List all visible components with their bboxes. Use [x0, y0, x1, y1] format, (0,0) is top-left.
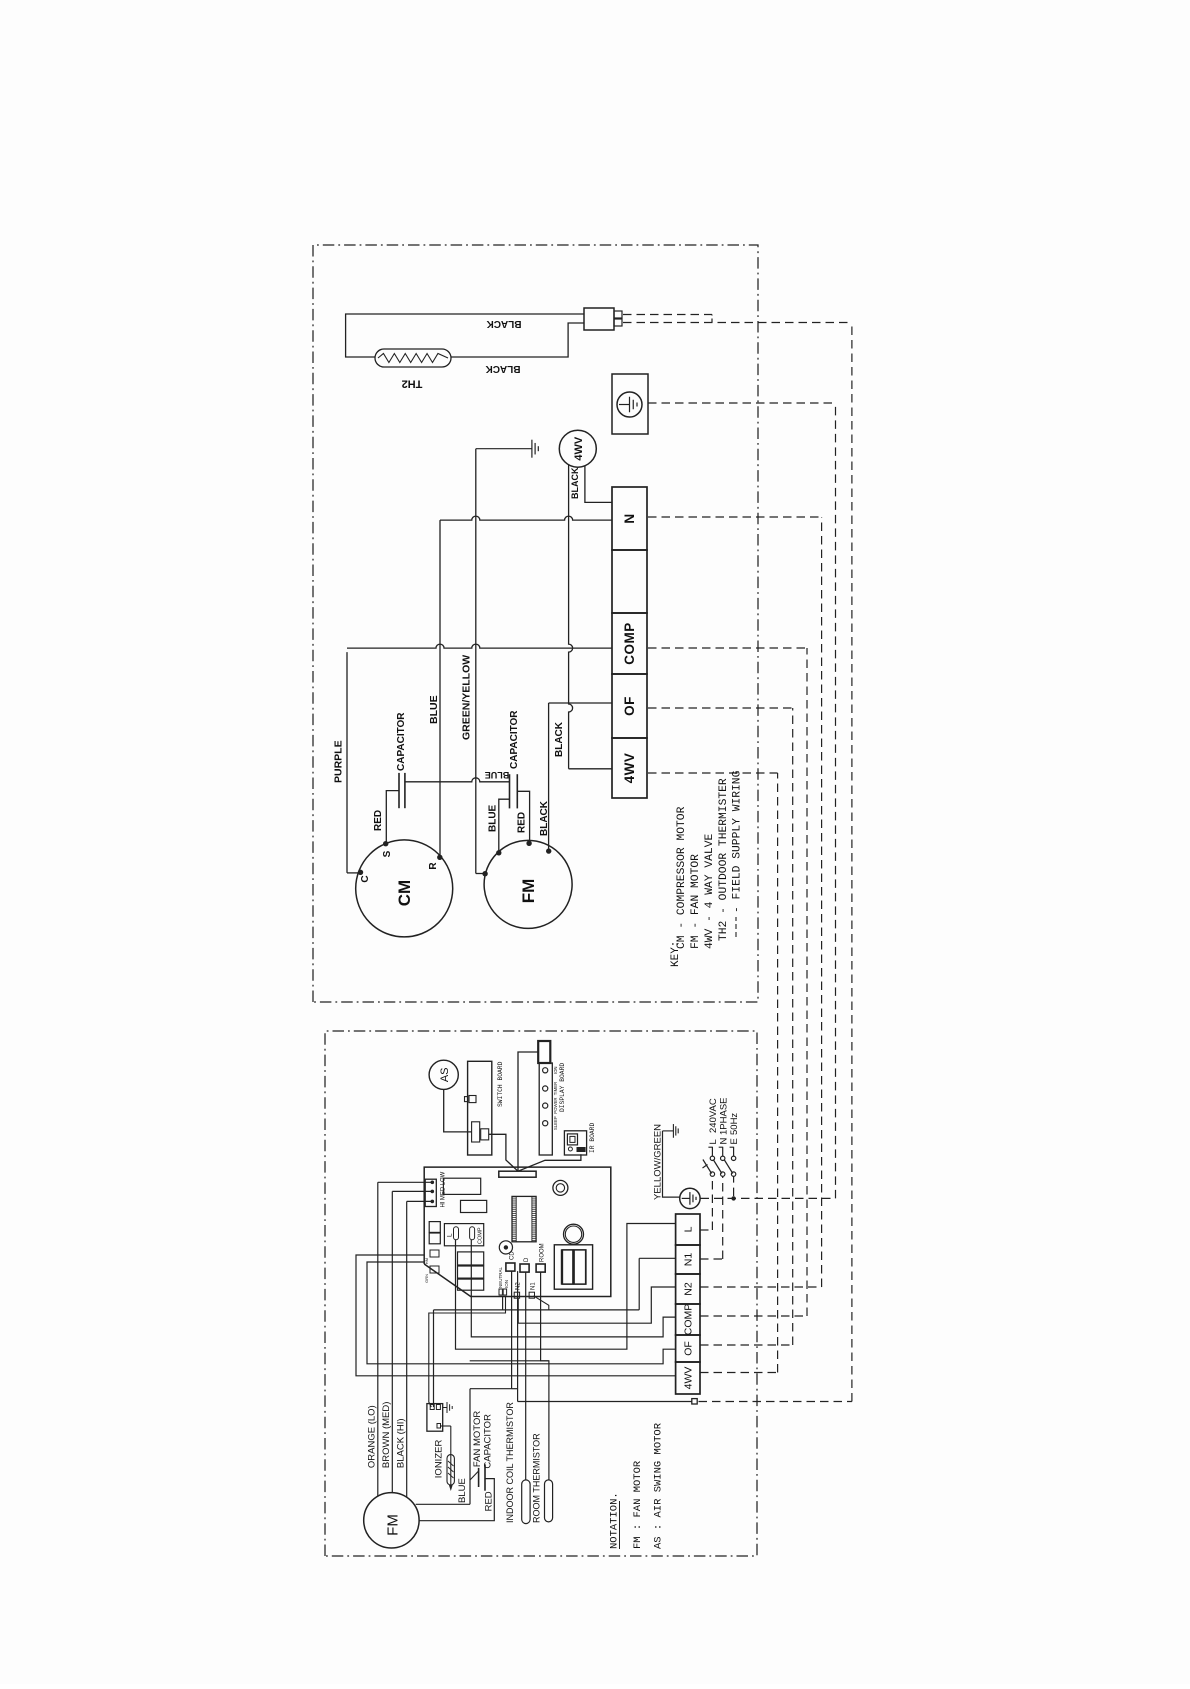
terminal R of CM: [437, 855, 442, 860]
component rect on PCB: [443, 1178, 480, 1194]
svg-text:SLEEP: SLEEP: [553, 1116, 558, 1130]
svg-text:FAN MOTOR: FAN MOTOR: [472, 1411, 483, 1467]
svg-text:BLACK (HI): BLACK (HI): [395, 1418, 406, 1468]
svg-text:CAPACITOR: CAPACITOR: [396, 712, 407, 771]
relay rect 3: [458, 1279, 484, 1290]
svg-text:BLUE: BLUE: [457, 1478, 468, 1503]
svg-text:N1: N1: [531, 1282, 537, 1290]
washer hole 2: [564, 1224, 584, 1244]
wire TH2 loop upper: [346, 314, 584, 357]
wire COMP relay to terminal COMP: [471, 1240, 675, 1337]
field wiring dashed earth indoor leg: [701, 1197, 836, 1199]
svg-text:- FIELD SUPPLY WIRING: - FIELD SUPPLY WIRING: [732, 770, 744, 913]
svg-text:AS: AS: [439, 1067, 451, 1082]
led SLEEP: [543, 1121, 548, 1126]
svg-text:RED: RED: [517, 812, 528, 833]
svg-text:N2: N2: [516, 1282, 522, 1290]
wire TH2 loop lower: [451, 323, 584, 357]
wire red FM to capacitor: [517, 791, 529, 843]
connector plug CN-TH2: [584, 308, 614, 330]
wire blue FM to capacitor: [499, 799, 510, 853]
svg-text:INDOOR COIL THERMISTOR: INDOOR COIL THERMISTOR: [505, 1402, 515, 1523]
ground symbol indoor: [663, 1130, 674, 1132]
svg-text:BLACK: BLACK: [554, 721, 565, 757]
svg-text:ROOM THERMISTOR: ROOM THERMISTOR: [532, 1433, 542, 1523]
svg-text:4WV: 4WV: [683, 1367, 695, 1390]
terminal strip indoor: [676, 1362, 700, 1394]
wire black FM to OF terminal: [548, 703, 550, 851]
wire blue neutral net CM R to N terminal: [439, 520, 441, 857]
room thermistor capsule: [545, 1480, 553, 1522]
terminal CD on PCB: [506, 1263, 515, 1271]
wire display board to pcb connector: [518, 1052, 538, 1171]
led POWER: [543, 1103, 548, 1108]
svg-text:4WV: 4WV: [573, 436, 585, 461]
svg-text:L: L: [447, 1233, 454, 1237]
svg-text:FM - FAN MOTOR: FM - FAN MOTOR: [690, 854, 702, 949]
capacitor FM plates: [509, 774, 511, 808]
terminal S of CM: [383, 841, 388, 846]
svg-text:N1: N1: [683, 1253, 695, 1267]
wire OF from pcb to terminal OF: [367, 1262, 676, 1364]
svg-text:L: L: [683, 1226, 695, 1232]
svg-text:OF: OF: [622, 696, 637, 716]
wire ION pad to ionizer: [429, 1296, 506, 1407]
svg-text:BLACK: BLACK: [486, 318, 522, 329]
led ION: [543, 1068, 548, 1073]
svg-text:NOTATION.: NOTATION.: [609, 1492, 621, 1549]
svg-text:4WV - 4 WAY VALVE: 4WV - 4 WAY VALVE: [704, 834, 716, 949]
terminal strip outdoor: [612, 738, 647, 798]
svg-text:ION: ION: [553, 1066, 558, 1074]
svg-text:4WV: 4WV: [622, 753, 637, 784]
switch N with dashed leads: [700, 1258, 723, 1260]
svg-text:FM: FM: [385, 1514, 402, 1536]
wire brown med speed: [391, 1191, 393, 1492]
plug pin 1: [614, 311, 622, 318]
IR board: [564, 1131, 586, 1155]
earth glyph ionizer: [443, 1407, 447, 1409]
svg-text:AS : AIR SWING MOTOR: AS : AIR SWING MOTOR: [653, 1422, 665, 1549]
power connector on PCB: [554, 1245, 592, 1289]
field wiring dashed run plug to indoor sensor connector: [851, 323, 853, 1402]
svg-text:50Hz: 50Hz: [729, 1113, 740, 1135]
wire 4WV to terminal N: [585, 466, 612, 503]
svg-text:ORANGE (LO): ORANGE (LO): [367, 1405, 378, 1468]
svg-text:COMP: COMP: [478, 1227, 484, 1244]
switch L with dashed leads: [700, 1229, 712, 1231]
ionizer electrode capsule: [447, 1455, 454, 1485]
switch E with dashed leads: [731, 1196, 735, 1200]
svg-text:N: N: [622, 513, 637, 523]
wire link CD to room jog: [470, 1360, 549, 1362]
svg-text:CM: CM: [395, 880, 414, 906]
svg-text:FM : FAN MOTOR: FM : FAN MOTOR: [632, 1460, 644, 1549]
svg-text:PURPLE: PURPLE: [333, 740, 345, 783]
wire green/yellow FM earth: [476, 873, 485, 875]
terminal ROOM on PCB: [536, 1264, 545, 1272]
wire black hi speed: [406, 1201, 408, 1497]
terminal C of CM: [358, 870, 363, 875]
svg-text:TH2: TH2: [402, 378, 423, 390]
svg-text:COMP: COMP: [683, 1304, 695, 1336]
fan motor FM indoor: [364, 1493, 419, 1548]
pad N2: [514, 1292, 519, 1298]
earth terminal box outdoor: [612, 374, 648, 434]
main PCB outline: [424, 1167, 611, 1296]
relay rect 1: [458, 1252, 484, 1265]
wire fan capacitor link to CD net: [469, 1389, 471, 1505]
svg-text:R: R: [428, 862, 439, 870]
svg-text:BLACK: BLACK: [485, 363, 521, 374]
svg-text:CAPACITOR: CAPACITOR: [509, 710, 520, 769]
wire yellow/green earth: [663, 1131, 680, 1197]
svg-text:HI: HI: [441, 1201, 447, 1207]
ionizer unit: [427, 1404, 443, 1432]
svg-text:NEUTRAL: NEUTRAL: [498, 1266, 503, 1288]
field wiring dashed N: [648, 516, 822, 518]
svg-text:FM: FM: [519, 879, 538, 904]
svg-text:GREEN/YELLOW: GREEN/YELLOW: [461, 655, 473, 740]
svg-text:HM: HM: [424, 1258, 429, 1264]
svg-text:ROOM: ROOM: [540, 1243, 546, 1262]
pad NEUTRAL: [499, 1289, 502, 1295]
compressor motor CM: [356, 840, 453, 937]
wire compressor common purple to COMP terminal: [347, 872, 361, 874]
terminal blue of FM: [496, 850, 501, 855]
outdoor unit boundary box (dash-dot): [313, 245, 758, 1002]
earth symbol indoor circle: [680, 1188, 700, 1208]
svg-text:BLUE: BLUE: [428, 695, 440, 724]
svg-text:IONIZER: IONIZER: [434, 1440, 445, 1479]
svg-text:POWER: POWER: [553, 1097, 558, 1113]
indoor coil thermistor capsule: [522, 1480, 530, 1524]
svg-text:BLUE: BLUE: [485, 770, 510, 780]
svg-text:D: D: [524, 1257, 530, 1262]
svg-text:TIMER: TIMER: [553, 1082, 558, 1095]
ground symbol outdoor: [476, 448, 532, 450]
jumper small 1: [430, 1250, 439, 1257]
svg-text:BLUE: BLUE: [488, 804, 499, 832]
svg-text:BLACK: BLACK: [539, 800, 550, 836]
terminal black of FM: [546, 848, 551, 853]
IC chip on PCB: [512, 1196, 536, 1241]
svg-text:YELLOW/GREEN: YELLOW/GREEN: [653, 1124, 664, 1200]
svg-text:N2: N2: [683, 1282, 695, 1296]
terminal red of FM: [526, 841, 531, 846]
led TIMER: [543, 1086, 548, 1091]
relay rect 2: [458, 1266, 484, 1278]
pad N1: [529, 1292, 534, 1298]
wire switch board to pcb connector: [489, 1134, 518, 1171]
washer hole 1: [553, 1180, 568, 1195]
wire 4WV from pcb to terminal 4WV: [356, 1255, 676, 1376]
wire red CM S to capacitor: [386, 791, 399, 844]
svg-text:CAPACITOR: CAPACITOR: [483, 1414, 494, 1469]
wire N2 pad to terminal N2: [518, 1287, 675, 1323]
field wiring dashed OF: [648, 707, 793, 709]
field wiring dashed earth outdoor to indoor: [648, 402, 836, 404]
earth symbol outdoor in circle: [617, 392, 642, 417]
sensor connector indoor: [692, 1399, 697, 1404]
air swing motor AS: [429, 1060, 458, 1089]
thermistor TH2 capsule: [375, 349, 451, 367]
display board: [539, 1063, 552, 1155]
svg-text:GRN: GRN: [424, 1274, 429, 1283]
svg-text:SWITCH BOARD: SWITCH BOARD: [497, 1061, 504, 1107]
svg-text:BLACK: BLACK: [570, 467, 580, 499]
wire IR board to pcb connector: [518, 1154, 581, 1171]
fuse on PCB: [429, 1233, 440, 1244]
svg-text:RED: RED: [484, 1491, 495, 1511]
wire CD to outdoor sensor connector: [511, 1271, 513, 1389]
wire indoor coil thermistor: [525, 1272, 527, 1480]
pad ION: [503, 1289, 506, 1295]
svg-text:CM - COMPRESSOR MOTOR: CM - COMPRESSOR MOTOR: [676, 806, 688, 949]
switch board: [468, 1061, 492, 1155]
fan motor FM outdoor: [484, 840, 572, 928]
fan speed connector on PCB: [425, 1179, 436, 1206]
svg-text:E: E: [729, 1138, 740, 1144]
svg-text:OF: OF: [683, 1341, 695, 1356]
terminal earth of FM: [482, 871, 487, 876]
svg-text:ION: ION: [504, 1280, 509, 1288]
terminal D on PCB: [520, 1264, 529, 1272]
svg-text:N: N: [718, 1138, 729, 1145]
plug pin 2: [614, 319, 622, 326]
field wiring dashed COMP: [648, 647, 807, 649]
svg-text:TH2 - OUTDOOR THERMISTER: TH2 - OUTDOOR THERMISTER: [718, 778, 730, 941]
wire blue FM indoor: [416, 1503, 470, 1505]
wire AS to switch board: [444, 1089, 472, 1132]
wire capacitor link vertical: [405, 778, 510, 782]
wire room thermistor: [541, 1272, 549, 1480]
washer hole 3: [499, 1241, 512, 1254]
component rect 2 on PCB: [461, 1200, 487, 1212]
indoor unit boundary box (dash-dot): [325, 1031, 757, 1556]
svg-text:C: C: [360, 875, 371, 882]
jumper small 2: [430, 1266, 439, 1273]
wire ionizer electrode: [441, 1425, 451, 1427]
svg-text:DISPLAY BOARD: DISPLAY BOARD: [559, 1063, 566, 1112]
fan motor capacitor indoor plates: [478, 1468, 480, 1487]
wire neutral net pcb to ionizer and N1: [434, 1309, 640, 1311]
4-way valve coil 4WV: [559, 430, 596, 467]
svg-text:CD: CD: [510, 1251, 516, 1260]
wire capacitor plate tap diagonal: [470, 1471, 479, 1480]
svg-text:RED: RED: [373, 810, 384, 831]
svg-text:IR BOARD: IR BOARD: [589, 1123, 596, 1153]
pcb connector bar to boards: [499, 1171, 536, 1177]
wire orange low speed: [377, 1182, 379, 1496]
capacitor CM plates: [398, 773, 400, 808]
field wiring dashed from plug pins: [623, 314, 712, 316]
svg-text:COMP: COMP: [622, 622, 637, 665]
wire red FM indoor: [419, 1479, 494, 1521]
field wiring dashed 4WV: [648, 772, 778, 774]
switch board connector rects: [472, 1122, 480, 1142]
wire L relay to terminal L: [456, 1224, 676, 1350]
relay block L COMP: [444, 1224, 483, 1246]
svg-text:1PHASE: 1PHASE: [718, 1098, 729, 1136]
wire 4WV to terminal 4WV (black): [569, 465, 573, 769]
svg-text:S: S: [382, 850, 393, 857]
svg-text:BROWN (MED): BROWN (MED): [381, 1402, 392, 1469]
thermistor TH2 zigzag element: [378, 354, 448, 363]
